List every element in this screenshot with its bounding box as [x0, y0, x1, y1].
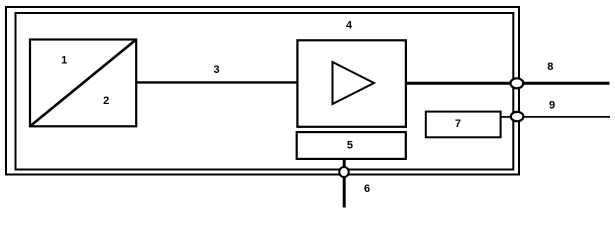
svg-text:7: 7	[455, 118, 461, 130]
block 7	[426, 112, 501, 138]
svg-text:4: 4	[346, 20, 353, 32]
wire 3 (block 1 to block 4)	[136, 81, 298, 83]
svg-text:1: 1	[61, 55, 67, 67]
block 5	[297, 132, 406, 159]
svg-text:8: 8	[547, 61, 553, 73]
svg-text:2: 2	[103, 95, 109, 107]
outer enclosure border	[6, 7, 519, 175]
svg-text:6: 6	[364, 183, 370, 195]
wire 6 (block 5 down to terminal 6)	[343, 158, 346, 208]
block 4 (amplifier)	[297, 40, 406, 127]
diagonal of block 1/2	[30, 40, 136, 127]
amplifier triangle U1	[333, 62, 375, 104]
wire 9 (block 7 to terminal 9)	[500, 116, 610, 118]
block 1/2 (sensor with diagonal)	[30, 40, 136, 127]
terminal 8	[511, 78, 524, 88]
svg-text:5: 5	[347, 139, 353, 151]
terminal 9	[511, 112, 524, 121]
wire 8 (block 4 output to terminal 8)	[405, 82, 610, 85]
svg-text:3: 3	[214, 64, 220, 76]
inner enclosure border	[16, 13, 514, 170]
svg-text:9: 9	[549, 100, 555, 112]
terminal 6	[339, 167, 348, 177]
